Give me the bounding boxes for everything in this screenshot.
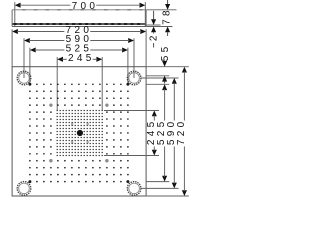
- small cross nozzle mark: [71, 123, 73, 125]
- side view: 700 extension line right: [144, 2, 146, 26]
- extension line: side view top edge to 78 dim: [146, 9, 176, 11]
- large grey nozzle dot: [49, 103, 52, 106]
- center inlet dot: [77, 130, 83, 136]
- small cross nozzle mark: [86, 141, 88, 143]
- extension: 525 right down to first nozzle row: [127, 48, 129, 85]
- svg-text:2: 2: [148, 32, 159, 41]
- extension: 590 left down to circle: [23, 38, 25, 78]
- dense center nozzle field: [57, 110, 103, 156]
- extension: square bottom edge to right dims: [146, 195, 189, 197]
- extension line: panel bottom to 78/2 dims: [146, 26, 172, 28]
- extension: 525 left down to first nozzle row: [29, 48, 31, 85]
- dimension 2: [153, 11, 155, 19]
- extension: 590 right down to circle: [133, 38, 135, 78]
- extension: 245 right down to dense field: [101, 57, 103, 111]
- dimension 55: [162, 61, 167, 67]
- extension: circle row bottom (590): [141, 187, 179, 189]
- side view: 700 extension line left: [14, 2, 16, 26]
- dimension 590 (vertical): [172, 78, 177, 84]
- mounting hole circle top-right: [127, 71, 141, 85]
- svg-text:720: 720: [176, 119, 187, 146]
- large grey nozzle dot: [105, 103, 108, 106]
- svg-text:78: 78: [162, 7, 173, 25]
- dimension 245 (vertical): [152, 111, 157, 117]
- side view: dark spray band: [12, 23, 146, 25]
- extension line: band bottom to 2 dim: [146, 24, 160, 26]
- corner nozzle dot: [28, 180, 31, 183]
- dimension 245: [57, 57, 63, 62]
- extension: dense field top (245): [104, 110, 159, 112]
- dimension 525 (vertical): [162, 84, 167, 90]
- dimension 720: [12, 29, 18, 34]
- svg-text:245: 245: [68, 53, 95, 64]
- mounting hole circle top-left: [17, 71, 31, 85]
- small cross nozzle mark: [86, 123, 88, 125]
- extension: circle row top (590): [141, 77, 179, 79]
- dimension 78: [167, 0, 169, 4]
- svg-text:55: 55: [160, 43, 171, 61]
- corner nozzle dot: [28, 83, 31, 86]
- extension: square right edge up to 720 dim: [145, 29, 147, 66]
- side view: top edge with nozzle ticks: [12, 9, 146, 11]
- side view: bottom panel line: [12, 26, 146, 28]
- side view: right edge: [145, 10, 147, 27]
- extension: last nozzle row (525 bottom): [146, 181, 169, 183]
- dimension 720 (vertical): [182, 67, 187, 73]
- extension: first nozzle row (525 top): [146, 83, 169, 85]
- dimension 525: [30, 47, 36, 52]
- large grey nozzle dot: [105, 159, 108, 162]
- extension: dense field bottom (245): [104, 155, 159, 157]
- sparse nozzle dot grid: [29, 83, 129, 182]
- extension: 55 bottom: [146, 75, 169, 77]
- corner nozzle dot: [126, 180, 129, 183]
- extension: square top edge to right dims: [146, 66, 189, 68]
- extension: 245 left down to dense field: [56, 57, 58, 111]
- mounting hole circle bottom-right: [127, 182, 141, 196]
- corner nozzle dot: [126, 83, 129, 86]
- large grey nozzle dot: [49, 159, 52, 162]
- side view: left edge: [11, 10, 13, 27]
- mounting hole circle bottom-left: [17, 182, 31, 196]
- plan view: square outline: [12, 67, 146, 196]
- small cross nozzle mark: [71, 141, 73, 143]
- dimension 590: [24, 38, 30, 43]
- dimension 700: [15, 3, 21, 8]
- extension: square left edge up to 720 dim: [11, 29, 13, 66]
